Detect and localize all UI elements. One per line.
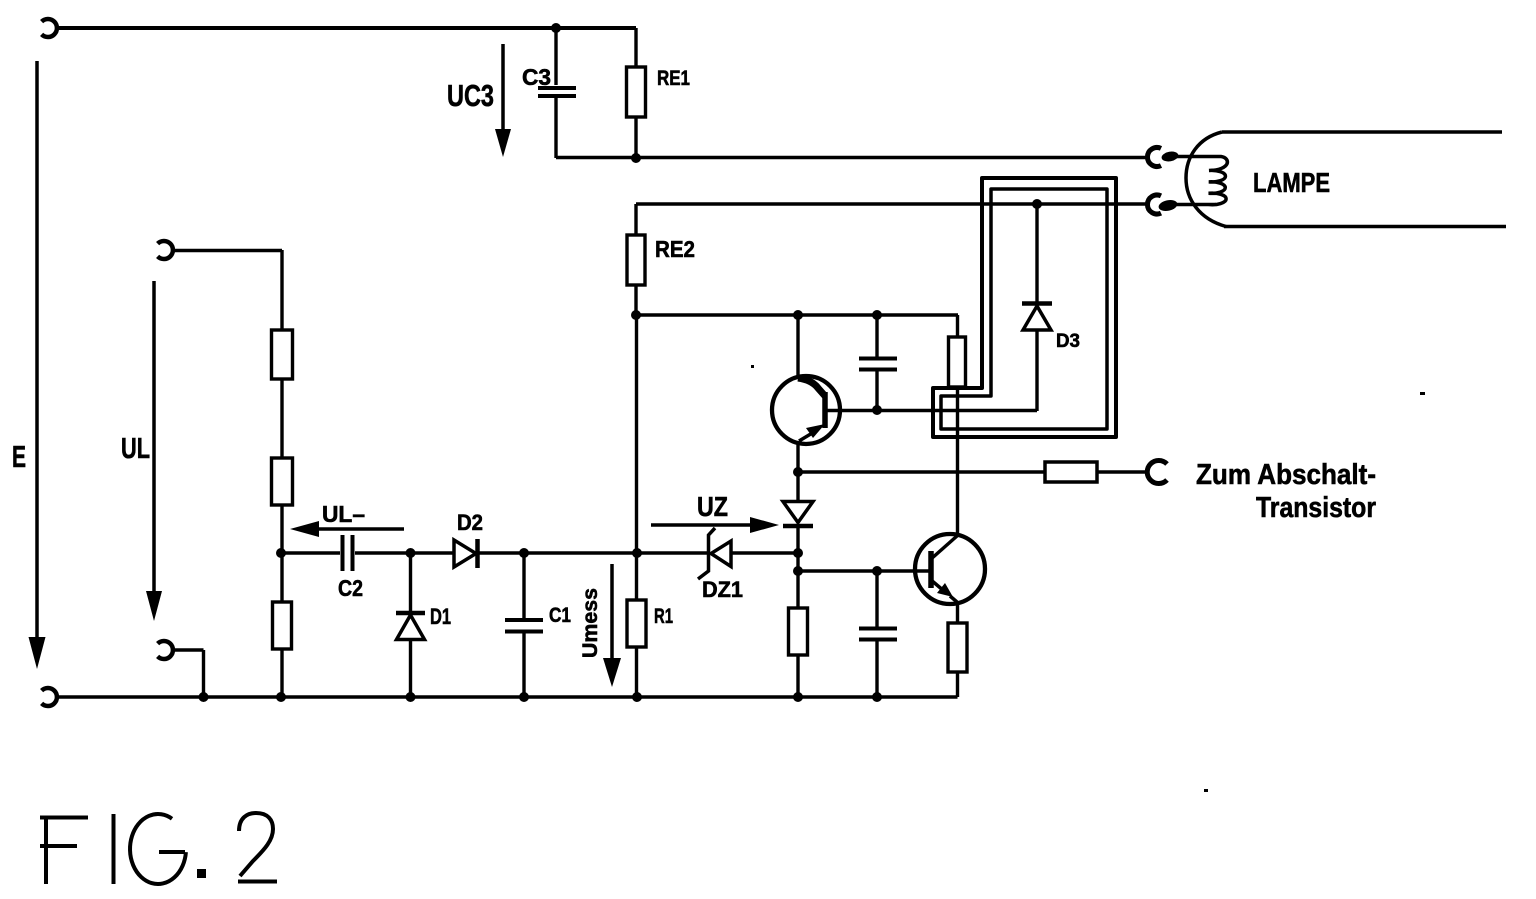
- svg-text:RE2: RE2: [655, 236, 695, 262]
- svg-text:Transistor: Transistor: [1256, 492, 1376, 524]
- svg-text:D3: D3: [1056, 331, 1080, 352]
- svg-text:LAMPE: LAMPE: [1253, 167, 1330, 198]
- svg-text:UZ: UZ: [697, 491, 728, 522]
- svg-text:C1: C1: [549, 604, 571, 627]
- svg-text:Umess: Umess: [579, 588, 602, 658]
- svg-text:E: E: [12, 439, 26, 474]
- svg-text:Zum Abschalt-: Zum Abschalt-: [1196, 459, 1376, 491]
- svg-text:DZ1: DZ1: [702, 577, 743, 602]
- svg-text:UL–: UL–: [322, 501, 365, 527]
- svg-text:UC3: UC3: [447, 78, 494, 113]
- svg-text:UL: UL: [121, 433, 150, 465]
- svg-text:C2: C2: [338, 575, 363, 601]
- svg-text:D1: D1: [430, 604, 451, 629]
- svg-text:C3: C3: [522, 64, 551, 90]
- svg-text:D2: D2: [457, 510, 483, 535]
- svg-text:RE1: RE1: [657, 67, 690, 90]
- svg-text:R1: R1: [654, 605, 673, 628]
